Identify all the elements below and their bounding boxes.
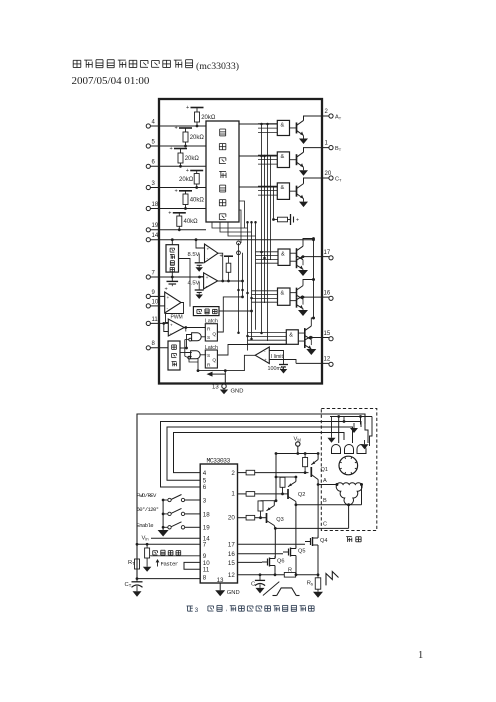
svg-text:A: A <box>323 478 327 484</box>
svg-text:C: C <box>251 582 255 588</box>
hall sensor H3 <box>357 445 366 454</box>
transistor Q5 MOSFET <box>238 546 306 558</box>
wire pin11 junction <box>162 322 168 332</box>
terminal pin 3 (left) <box>146 181 155 190</box>
wire pin 6 row <box>150 165 206 167</box>
svg-text:+: + <box>186 168 189 174</box>
resistor comparator pull-up <box>220 254 234 281</box>
wire pin 4 row <box>150 125 206 127</box>
resistor Q1 base pull-up <box>303 454 308 475</box>
svg-text:S: S <box>207 335 210 341</box>
wire pin8 row <box>137 578 200 580</box>
svg-text:+: + <box>220 254 223 260</box>
bus wire V2 <box>242 253 244 297</box>
pin number 13 IC2 bottom <box>217 577 224 584</box>
motor winding coil B-C <box>347 485 362 507</box>
resistor-capacitor osc timing <box>272 214 299 225</box>
wire pin 14 row <box>150 239 313 241</box>
svg-text:10: 10 <box>152 299 159 305</box>
wire hall feeds <box>339 417 368 444</box>
ground GND IC2 pin13 <box>215 583 239 596</box>
wire hall loop right <box>333 417 372 447</box>
wire pin2 row + resistor to Q1 base <box>238 470 309 475</box>
svg-text:Q4: Q4 <box>320 538 327 544</box>
wire Q2 collector to node B <box>295 502 297 505</box>
terminal pin 8 (left) <box>146 341 155 350</box>
wire pin 18 row <box>150 208 206 210</box>
resistor Q3 base pull-up <box>258 499 277 519</box>
wire pin12 sense row <box>238 574 319 576</box>
resistor 20k pull-up pin3 <box>179 168 203 189</box>
pin number 3 IC2 left <box>203 497 207 504</box>
and gate G1 + transistor Q-A top driver + terminal pin 2 AT <box>258 109 342 144</box>
svg-text:+: + <box>167 296 170 301</box>
terminal pin 4 (left) <box>146 119 155 128</box>
wire switch common rail <box>162 500 164 530</box>
terminal pin 6 (left) <box>146 160 155 169</box>
svg-text:&: & <box>281 123 285 129</box>
and gate G-L2 <box>186 351 206 359</box>
svg-text:17: 17 <box>228 542 235 549</box>
svg-text:14: 14 <box>152 233 159 239</box>
capacitor on pin7 reference <box>165 277 179 293</box>
wire comparator2 minus to pin7 row <box>198 276 204 279</box>
resistor 20k pull-up pin5 <box>175 126 205 148</box>
pin number 9 IC2 left <box>203 553 207 560</box>
pin number 20 IC2 right <box>228 514 235 521</box>
bus wire V8 <box>267 124 269 341</box>
ground arrow switch common <box>158 530 169 537</box>
wire Q1 collector to node A <box>317 480 319 485</box>
comparator U-4.5V <box>188 273 218 299</box>
resistor RT <box>128 559 140 569</box>
svg-text:R: R <box>207 362 211 368</box>
pin number 5 IC2 left <box>203 478 207 485</box>
bus wire V3 <box>247 222 249 350</box>
transistor Q6 MOSFET <box>238 556 285 568</box>
potentiometer speed adjust 速度调节 <box>143 544 181 572</box>
bus junction dots <box>237 123 269 341</box>
svg-text:+: + <box>207 248 210 253</box>
wire diagonal pickoff <box>263 582 279 596</box>
wire Q4 source <box>317 548 320 577</box>
switch 60/120 pin18 <box>137 506 201 516</box>
and gate G6 + totem transistors + terminal pin 15 <box>248 317 334 355</box>
bus wire V5 <box>255 222 257 329</box>
svg-text:60°/120°: 60°/120° <box>137 506 159 513</box>
wire pin 19 row <box>150 229 206 231</box>
terminal pin 10 (left) <box>146 299 159 308</box>
wire node A row <box>317 478 337 486</box>
wire pin1 row + resistor to Q2 base <box>238 492 289 497</box>
wire pin 10 row <box>150 305 164 307</box>
svg-text:C: C <box>323 522 327 528</box>
svg-text:18: 18 <box>203 511 210 518</box>
switch FWD/REV pin3 <box>137 492 201 502</box>
page number 1 <box>418 650 423 661</box>
svg-text:15: 15 <box>324 331 331 337</box>
svg-text:+: + <box>170 146 173 152</box>
pin number 19 IC2 left <box>203 525 210 532</box>
comparator U-8.5V <box>188 244 219 272</box>
svg-text:Faster: Faster <box>161 561 178 568</box>
svg-text:13: 13 <box>212 385 219 391</box>
svg-text:4: 4 <box>203 470 207 477</box>
svg-text:13: 13 <box>217 577 224 584</box>
wire pin 7 row <box>150 276 204 278</box>
waveform sawtooth glyph <box>326 572 339 586</box>
terminal pin 19 (left) <box>146 223 159 232</box>
resistor R <box>284 568 295 578</box>
wire PWM output <box>184 326 206 357</box>
wire Q6 drain <box>274 528 276 558</box>
svg-text:7: 7 <box>203 542 207 549</box>
pin number 17 IC2 right <box>228 542 235 549</box>
node open circle top bus1 <box>237 241 241 255</box>
svg-text:&: & <box>281 291 285 297</box>
oscillator block 振荡器 <box>168 341 180 370</box>
svg-text:&: & <box>289 332 293 338</box>
terminal pin 9 (left) <box>146 290 155 299</box>
wire loop pin5 <box>167 427 353 480</box>
resistor Rs current sense <box>307 575 323 598</box>
wire pin10-pin11 feedback loop <box>184 562 200 569</box>
svg-text:17: 17 <box>324 250 331 256</box>
wire node C up to winding <box>348 505 350 529</box>
and gate G4 + totem transistors + terminal pin 17 <box>256 237 334 276</box>
svg-text:+: + <box>296 218 299 224</box>
figure caption 图3 三相六步全波电机控制电路 <box>187 605 315 613</box>
svg-text:GND: GND <box>227 590 240 596</box>
svg-text:Q: Q <box>212 358 216 364</box>
svg-text:Q2: Q2 <box>298 492 305 498</box>
document title 电动车无刷控制器原理图（mc33033) <box>73 60 239 72</box>
wire Vm to pin14 <box>142 536 201 542</box>
wire latch2 Q output <box>217 345 286 356</box>
wire decoder out row B <box>239 155 277 157</box>
wire outer loop Vref rail <box>137 414 365 579</box>
pin number 7 IC2 left <box>203 542 207 549</box>
resistor 40k pull-up pin18 <box>175 188 205 210</box>
svg-text:(mc33033): (mc33033) <box>196 61 239 72</box>
pin number 15 IC2 right <box>228 560 235 567</box>
wire Q3 collector to node C <box>274 526 275 529</box>
and gate G5 + totem transistors + terminal pin 16 <box>252 278 334 316</box>
svg-text:Q3: Q3 <box>276 517 283 523</box>
wire decoder out row C <box>239 186 277 188</box>
pin number 4 IC2 left <box>203 470 207 477</box>
svg-text:1: 1 <box>418 650 423 661</box>
resistor 20k pull-up pin6 <box>170 146 200 168</box>
svg-text:8: 8 <box>203 575 207 582</box>
svg-text:1: 1 <box>231 491 235 498</box>
svg-text:12: 12 <box>324 357 331 363</box>
svg-text:Q5: Q5 <box>298 549 305 555</box>
date line 2007/05/04 01:00 <box>72 75 150 87</box>
wire pin 5 row <box>150 145 206 147</box>
svg-text:I limit: I limit <box>271 354 284 360</box>
pin number 12 IC2 right <box>228 572 235 579</box>
pin number 18 IC2 left <box>203 511 210 518</box>
comparator PWM <box>168 315 184 337</box>
wire loop pin6 <box>161 422 362 488</box>
resistor Q2 base pull-up <box>276 477 285 495</box>
transistor Q1 PNP <box>311 454 328 480</box>
wire VM rail <box>276 452 320 455</box>
svg-text:4.5V: 4.5V <box>188 281 200 287</box>
capacitor CT <box>125 579 143 597</box>
op-amp IC2 MC33033 package <box>200 457 237 583</box>
and gate G2 + transistor Q-B top driver + terminal pin 1 BT <box>258 140 342 175</box>
latch U-latch1 <box>205 319 218 342</box>
terminal pin 18 (left) <box>146 202 159 211</box>
and gate G3 + transistor Q-C top driver + terminal pin 20 CT <box>258 171 342 207</box>
terminal pin 7 (left) <box>146 270 155 279</box>
pin number 1 IC2 right <box>231 491 235 498</box>
svg-text:11: 11 <box>152 317 159 323</box>
wire loop pin4 <box>174 433 345 473</box>
svg-text:Q6: Q6 <box>277 559 284 565</box>
motor winding coil A-B <box>335 483 363 486</box>
svg-text:+: + <box>168 210 171 216</box>
bus wire V1 <box>238 243 240 333</box>
svg-text:40kΩ: 40kΩ <box>184 219 199 225</box>
pin number 16 IC2 right <box>228 551 235 558</box>
wire osc to gates <box>180 335 192 353</box>
svg-text:19: 19 <box>152 223 159 229</box>
hall ground arrow 2 <box>350 422 358 434</box>
comparator I-limit <box>255 347 283 364</box>
svg-text:&: & <box>281 252 285 258</box>
wire pin 9 row <box>150 295 164 297</box>
svg-text:40kΩ: 40kΩ <box>190 197 205 203</box>
svg-text:FWD/REV: FWD/REV <box>137 492 158 499</box>
pin number 14 IC2 left <box>203 536 210 543</box>
svg-text:16: 16 <box>324 291 331 297</box>
wire latch2 bottom loop <box>189 355 255 372</box>
ground GND pin13 of IC1 <box>207 369 244 394</box>
svg-text:&: & <box>281 154 285 160</box>
svg-text:18: 18 <box>152 202 159 208</box>
capacitor 100mV reference <box>268 351 289 374</box>
resistor 40k pull-up pin19 <box>168 210 198 231</box>
svg-text:R: R <box>207 327 211 333</box>
op-amp error amplifier EA <box>165 292 181 313</box>
svg-text:3: 3 <box>203 497 207 504</box>
svg-text:20kΩ: 20kΩ <box>185 156 200 162</box>
wire error amp output to PWM <box>166 303 184 323</box>
svg-text:6: 6 <box>203 484 207 491</box>
terminal pin 14 (left) <box>146 233 159 242</box>
motor label 电机 <box>346 537 361 542</box>
svg-text:Rs: Rs <box>307 581 313 587</box>
terminal pin 12 <box>296 357 333 367</box>
svg-text:+: + <box>175 126 178 132</box>
svg-text:PWM: PWM <box>171 315 183 321</box>
svg-text:20kΩ: 20kΩ <box>201 115 216 121</box>
terminal pin 5 (left) <box>146 139 155 148</box>
svg-text:12: 12 <box>228 572 235 579</box>
svg-text:MC33033: MC33033 <box>207 457 231 464</box>
svg-text:20kΩ: 20kΩ <box>190 135 205 141</box>
wire pin 8 row <box>150 347 168 349</box>
capacitor C filter <box>251 573 265 593</box>
and gate G-L1 <box>186 333 206 341</box>
wire comparator1 to pin14 row <box>195 238 205 248</box>
svg-text:Enable: Enable <box>137 522 154 529</box>
svg-text:11: 11 <box>203 567 210 574</box>
reference regulator block 基准电压 <box>166 238 190 306</box>
wire Q4 drain <box>317 485 319 538</box>
svg-text:GND: GND <box>231 388 244 394</box>
wire hall bus <box>330 415 372 418</box>
switch Enable pin19 <box>137 522 201 529</box>
svg-text:S: S <box>207 353 210 359</box>
wire decoder out row A <box>239 123 277 125</box>
svg-text:CT: CT <box>125 582 132 588</box>
wire node B up to winding <box>361 485 363 505</box>
motor winding coil C-A <box>336 485 348 505</box>
terminal VM supply <box>294 436 302 455</box>
svg-text:20kΩ: 20kΩ <box>179 177 194 183</box>
wire comparator1 output down <box>218 253 223 281</box>
wire node C row <box>274 522 349 530</box>
pin number 11 IC2 left <box>203 567 210 574</box>
wire latch1 Q output <box>217 296 244 333</box>
terminal pin 11 (left) <box>146 317 158 326</box>
wire Q6 source <box>274 568 277 576</box>
svg-text:15: 15 <box>228 560 235 567</box>
wire RT bottom to pin8 <box>136 569 201 580</box>
pin number 8 IC2 left <box>203 575 207 582</box>
pin number 2 IC2 right <box>231 470 235 477</box>
hall ground arrow 1 <box>328 417 336 443</box>
svg-text:20: 20 <box>228 514 235 521</box>
svg-text:8.5V: 8.5V <box>188 252 200 258</box>
IC1 outer border box <box>159 99 322 384</box>
svg-text:20: 20 <box>325 171 332 177</box>
svg-text:Vin: Vin <box>142 536 150 542</box>
svg-text:Q: Q <box>212 332 216 338</box>
wire pin 3 row <box>150 187 206 189</box>
wire Ilimit row to pin12 <box>269 360 296 364</box>
hall sensor H1 <box>332 445 341 454</box>
pin number 6 IC2 left <box>203 484 207 491</box>
svg-text:+: + <box>175 188 178 194</box>
transistor Q4 MOSFET <box>238 536 328 575</box>
svg-text:B: B <box>323 498 327 504</box>
transistor Q3 PNP <box>267 501 284 526</box>
svg-text:+: + <box>186 105 189 111</box>
svg-text:19: 19 <box>203 525 210 532</box>
svg-text:&: & <box>281 185 285 191</box>
waveform trapezoid glyph <box>273 588 300 596</box>
bus wire V7 <box>264 156 266 303</box>
bus wire V9 <box>270 156 272 260</box>
svg-text:2007/05/04 01:00: 2007/05/04 01:00 <box>72 75 150 87</box>
bus wire V6 <box>261 124 263 333</box>
svg-text:2: 2 <box>231 470 235 477</box>
svg-text:3: 3 <box>195 607 199 614</box>
rotor position decoder block 转子位置译码器 <box>206 121 239 222</box>
wire node B row <box>296 498 362 505</box>
wire decoder bottom exits <box>212 201 256 243</box>
wire Q5 source <box>295 558 298 576</box>
bus wire V4 <box>251 222 253 339</box>
rail wire right side <box>312 238 315 319</box>
transistor Q2 PNP <box>283 476 306 502</box>
hall ground arrow 3 <box>361 440 369 449</box>
wire pin 11 row <box>150 322 168 324</box>
motor enclosure dashed box <box>321 409 377 531</box>
svg-text:BT: BT <box>335 146 342 152</box>
wire pin7 row <box>136 543 201 546</box>
latch 2 <box>205 345 218 368</box>
svg-text:AT: AT <box>335 114 342 120</box>
svg-text:+: + <box>264 359 267 364</box>
bus wire V10 <box>273 187 275 220</box>
svg-text:16: 16 <box>228 551 235 558</box>
resistor 20k pull-up pin4 <box>186 105 216 127</box>
wire Q5 drain <box>295 503 298 548</box>
wire pin20 row + resistor to Q3 base <box>238 515 267 520</box>
motor rotor <box>339 456 358 475</box>
svg-text:CT: CT <box>335 176 342 182</box>
wire pot wiper to pin9 <box>151 555 201 557</box>
svg-text:+: + <box>206 276 209 281</box>
pin number 10 IC2 left <box>203 560 210 567</box>
svg-text:+: + <box>170 323 173 328</box>
wire comparator output row <box>218 280 244 283</box>
thermal shutdown block 热关断 <box>193 307 253 316</box>
hall sensor H2 <box>345 445 354 454</box>
wire rail drop to Q2/Q3 <box>275 452 278 501</box>
